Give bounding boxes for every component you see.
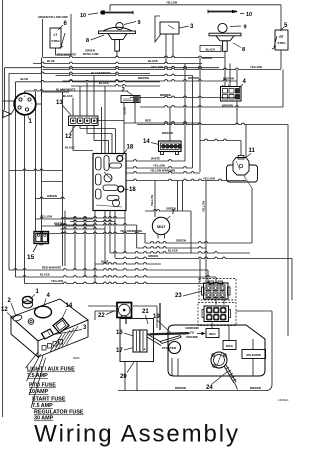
wire bbox=[60, 228, 105, 229]
wire bus YELLOW bbox=[43, 68, 282, 69]
wire label WHITE bbox=[126, 160, 185, 161]
svg-text:SEAT: SEAT bbox=[157, 225, 166, 229]
svg-text:ENGINE: ENGINE bbox=[186, 335, 198, 339]
wire bottom bus YELLOW bbox=[25, 282, 225, 283]
wire bbox=[184, 64, 186, 162]
wire label BLUE left bbox=[16, 80, 161, 81]
wire bbox=[165, 34, 167, 63]
module pin 18a bbox=[117, 156, 123, 162]
svg-text:18: 18 bbox=[129, 187, 136, 193]
light bar 10 left bbox=[100, 12, 133, 14]
wire bbox=[88, 305, 116, 307]
svg-text:10: 10 bbox=[80, 13, 86, 19]
svg-text:YELLOW: YELLOW bbox=[150, 194, 154, 206]
svg-text:TO: TO bbox=[190, 331, 195, 335]
svg-text:W/YELLOW: W/YELLOW bbox=[83, 52, 99, 56]
switch S5 (RT STRG) bbox=[275, 30, 288, 50]
wire bbox=[5, 66, 220, 67]
svg-text:WHITE: WHITE bbox=[151, 157, 160, 161]
fuse holders bbox=[42, 346, 46, 351]
border frame left edge bbox=[2, 0, 4, 417]
wire bbox=[280, 50, 282, 69]
wire bbox=[215, 299, 217, 305]
svg-text:BROWN: BROWN bbox=[160, 93, 171, 97]
wire yellow top run bbox=[110, 4, 281, 6]
svg-text:BROWN: BROWN bbox=[175, 386, 186, 390]
connector 13 cells bbox=[71, 118, 77, 124]
wire label YELLOW left bbox=[36, 218, 94, 219]
svg-text:14: 14 bbox=[143, 139, 150, 145]
svg-text:21: 21 bbox=[142, 309, 149, 315]
wire bbox=[24, 91, 26, 94]
svg-text:BLACK: BLACK bbox=[65, 146, 75, 150]
seat switch 7 bbox=[152, 217, 169, 234]
svg-text:YELLOW: YELLOW bbox=[153, 163, 165, 167]
console knob 4 bbox=[35, 306, 52, 318]
svg-text:20: 20 bbox=[120, 374, 127, 380]
wire bbox=[84, 218, 86, 277]
wire label YELLOW W/BROWN bbox=[126, 172, 200, 173]
wire label RED bbox=[124, 122, 200, 123]
wire bbox=[15, 82, 17, 277]
svg-text:16: 16 bbox=[116, 330, 123, 336]
svg-text:YELLOW: YELLOW bbox=[166, 1, 178, 5]
svg-text:RT: RT bbox=[279, 35, 283, 39]
wire bbox=[42, 19, 44, 57]
wire bbox=[55, 224, 137, 225]
wire bbox=[171, 358, 173, 376]
starter cable wedge bbox=[160, 336, 181, 344]
svg-text:GROUND: GROUND bbox=[185, 326, 199, 330]
svg-text:12: 12 bbox=[1, 307, 8, 313]
connector 23 upper dashed box bbox=[199, 279, 236, 301]
wire bbox=[282, 70, 284, 108]
wire bbox=[291, 259, 293, 301]
wire bbox=[124, 362, 126, 391]
svg-text:BLACK: BLACK bbox=[148, 59, 158, 63]
wire bbox=[244, 176, 252, 188]
wire bbox=[236, 70, 238, 87]
svg-text:SOLENOID: SOLENOID bbox=[246, 353, 261, 357]
wire bbox=[9, 169, 63, 170]
wire bbox=[42, 181, 63, 183]
switch 3 box bbox=[160, 22, 179, 34]
magneto MAG box bbox=[223, 341, 236, 350]
wire bbox=[192, 76, 194, 169]
wire bbox=[207, 270, 209, 282]
svg-text:10 AMP: 10 AMP bbox=[29, 389, 49, 395]
wire bus BROWN2 bbox=[130, 96, 237, 97]
fuse leader lines bbox=[26, 352, 39, 368]
switch S6 (LT STRG) bbox=[50, 28, 61, 48]
module housing bbox=[93, 154, 126, 211]
svg-text:GREEN: GREEN bbox=[47, 194, 57, 198]
wire bbox=[134, 103, 136, 124]
svg-text:18: 18 bbox=[127, 145, 134, 151]
bulb 9 left bbox=[116, 22, 123, 29]
wire label GREEN left bbox=[36, 197, 66, 198]
connector 23 lower dashed box bbox=[198, 303, 236, 326]
wire bbox=[74, 218, 76, 270]
connector 4 bbox=[221, 87, 242, 102]
wire bbox=[224, 58, 226, 87]
svg-text:14: 14 bbox=[66, 303, 73, 309]
wire bbox=[94, 211, 96, 284]
wire right long bbox=[287, 125, 289, 337]
svg-text:09116: 09116 bbox=[73, 357, 80, 360]
wire bbox=[70, 14, 72, 55]
svg-text:YELLOW: YELLOW bbox=[151, 65, 163, 69]
wire label BLUE mid bbox=[95, 263, 161, 264]
svg-text:BLUE: BLUE bbox=[47, 59, 55, 63]
svg-text:BROWN: BROWN bbox=[222, 104, 233, 108]
wire bbox=[72, 126, 74, 151]
connector 23 upper bbox=[204, 283, 229, 299]
wire bbox=[116, 51, 118, 57]
wire bbox=[123, 103, 125, 154]
svg-text:BROWN: BROWN bbox=[138, 76, 149, 80]
wire bbox=[64, 211, 66, 267]
module pin 18b bbox=[118, 186, 124, 192]
wire bbox=[172, 34, 174, 57]
wire bbox=[62, 91, 64, 266]
svg-text:17: 17 bbox=[116, 348, 123, 354]
switch 15 bbox=[34, 232, 49, 244]
svg-text:YELLOW: YELLOW bbox=[203, 177, 215, 181]
bulb 9 right bbox=[218, 23, 227, 32]
wire bus BROWN bbox=[63, 80, 238, 81]
battery 16/17 bbox=[133, 330, 147, 352]
svg-text:12001A: 12001A bbox=[278, 398, 288, 402]
console small button bbox=[28, 319, 34, 325]
wire label YELLOW/BROWN bbox=[36, 232, 146, 233]
svg-text:YELLOW: YELLOW bbox=[51, 279, 63, 283]
svg-text:12: 12 bbox=[65, 134, 72, 140]
wire bus BLACK2 bbox=[71, 85, 160, 86]
wire bbox=[211, 323, 213, 329]
wire bus low bbox=[140, 106, 283, 107]
svg-text:BLACK/WHITE: BLACK/WHITE bbox=[91, 71, 111, 75]
wire bbox=[137, 123, 288, 124]
svg-text:REG: REG bbox=[209, 332, 216, 336]
svg-text:BLUE: BLUE bbox=[21, 77, 29, 81]
wire cable from above bbox=[159, 303, 161, 330]
console rocker 3 bbox=[42, 329, 54, 339]
relay 11 body bbox=[233, 158, 249, 176]
lamp 8 left lens bbox=[103, 27, 132, 31]
wire bbox=[199, 259, 201, 283]
svg-text:GREEN/YELLOW GRN: GREEN/YELLOW GRN bbox=[38, 15, 68, 19]
wire bbox=[65, 217, 125, 218]
wire bus BLACK/WHITE bbox=[56, 74, 193, 75]
wire bbox=[205, 181, 207, 283]
svg-text:PTO FUSE: PTO FUSE bbox=[29, 383, 56, 389]
wire bottom bus RED W/WHITE bbox=[9, 269, 208, 270]
solenoid box bbox=[242, 350, 266, 359]
svg-text:YELLOW W/BROWN: YELLOW W/BROWN bbox=[150, 168, 175, 172]
svg-text:BLACK: BLACK bbox=[168, 249, 178, 253]
wire bbox=[3, 100, 15, 102]
wire bbox=[72, 98, 74, 116]
wire bbox=[94, 140, 109, 142]
wire bbox=[8, 74, 10, 271]
svg-text:YELLOW: YELLOW bbox=[202, 200, 206, 212]
wire label GREEN mid2 bbox=[115, 257, 292, 258]
svg-text:22: 22 bbox=[98, 313, 105, 319]
svg-text:RED W/WHITE: RED W/WHITE bbox=[57, 53, 76, 57]
svg-text:GREEN: GREEN bbox=[176, 238, 186, 242]
connector 13 housing bbox=[69, 116, 99, 126]
wire bbox=[80, 128, 116, 130]
svg-text:GREEN: GREEN bbox=[202, 56, 212, 60]
lamp 8 right lens bbox=[209, 33, 241, 36]
spark plug wire bbox=[224, 366, 234, 383]
svg-text:YELLOW: YELLOW bbox=[250, 65, 262, 69]
connector 23 lower bbox=[204, 306, 229, 322]
wire bbox=[9, 72, 150, 73]
svg-text:GREEN: GREEN bbox=[148, 254, 158, 258]
wire bbox=[41, 58, 43, 233]
svg-text:START FUSE: START FUSE bbox=[32, 397, 66, 403]
wire bbox=[154, 181, 156, 218]
svg-text:BLACK: BLACK bbox=[63, 94, 73, 98]
svg-text:9: 9 bbox=[244, 25, 247, 31]
wire bbox=[169, 107, 171, 141]
wire bbox=[137, 247, 206, 248]
wire bottom bus BLACK bbox=[16, 276, 217, 277]
svg-text:BROWN: BROWN bbox=[162, 131, 173, 135]
wire label WHITE left bbox=[42, 225, 96, 226]
wire bbox=[70, 220, 115, 221]
label 10 right bbox=[240, 13, 244, 15]
battery box 20 bbox=[120, 319, 154, 362]
console front face bbox=[38, 320, 88, 357]
svg-text:BROWN: BROWN bbox=[188, 76, 199, 80]
console key switch 1 bbox=[23, 296, 33, 303]
svg-text:Wiring Assembly: Wiring Assembly bbox=[34, 421, 240, 448]
svg-text:STARTER: STARTER bbox=[162, 346, 177, 350]
battery cable bbox=[147, 334, 162, 343]
wire bbox=[101, 107, 103, 154]
svg-text:STRG: STRG bbox=[277, 41, 286, 45]
svg-text:BLACK: BLACK bbox=[206, 47, 216, 51]
wire bbox=[133, 305, 157, 307]
wire bbox=[109, 211, 111, 254]
wire bbox=[114, 211, 116, 259]
svg-text:LT: LT bbox=[54, 33, 58, 37]
relay 11 socket bbox=[227, 165, 258, 182]
console top face bbox=[11, 299, 88, 341]
rectifier 22 bbox=[117, 303, 132, 318]
svg-text:BROWN: BROWN bbox=[250, 386, 261, 390]
wire bbox=[136, 225, 138, 248]
svg-text:7.5 AMP: 7.5 AMP bbox=[27, 373, 48, 379]
wire bus BLUE bbox=[33, 62, 202, 63]
svg-text:YELLOW: YELLOW bbox=[40, 214, 52, 218]
wire bbox=[35, 91, 37, 232]
module inner parts bbox=[96, 157, 102, 170]
svg-text:LIGHT / AUX FUSE: LIGHT / AUX FUSE bbox=[27, 367, 75, 373]
engine outline bbox=[168, 325, 265, 376]
starter bbox=[169, 342, 181, 354]
ground cable wedge bbox=[150, 332, 191, 335]
svg-text:YELLOW/BROWN: YELLOW/BROWN bbox=[120, 229, 142, 233]
svg-text:BLUE: BLUE bbox=[101, 259, 109, 263]
svg-text:10: 10 bbox=[246, 12, 252, 18]
wire bbox=[224, 52, 226, 58]
wire bbox=[104, 211, 106, 265]
wire bbox=[190, 211, 192, 253]
svg-text:8: 8 bbox=[86, 38, 89, 44]
ignition switch 1 bbox=[14, 93, 36, 115]
wire bbox=[240, 141, 242, 156]
svg-text:RED: RED bbox=[145, 119, 151, 123]
light bar 10 right bbox=[208, 11, 237, 13]
svg-text:BLACK/WHITE: BLACK/WHITE bbox=[56, 88, 76, 92]
wire label BLACK mid bbox=[110, 252, 250, 253]
console front hatch bbox=[50, 334, 62, 352]
wire bbox=[200, 139, 241, 140]
svg-text:MAG: MAG bbox=[226, 344, 234, 348]
svg-text:RED W/WHITE: RED W/WHITE bbox=[42, 265, 61, 269]
svg-text:11: 11 bbox=[249, 148, 256, 154]
connector 14 bbox=[159, 141, 182, 152]
wire label BLACK boxed bbox=[200, 46, 221, 52]
console indicator 2 bbox=[12, 314, 22, 322]
svg-text:BLACK: BLACK bbox=[40, 272, 50, 276]
wire bbox=[144, 233, 146, 243]
regulator REG bbox=[206, 329, 219, 338]
wire bbox=[177, 181, 179, 212]
wire label GREEN mid bbox=[145, 242, 252, 243]
console connector 14 bbox=[53, 318, 69, 333]
svg-text:7.5 AMP: 7.5 AMP bbox=[32, 403, 53, 409]
wire bbox=[124, 211, 126, 254]
svg-text:15: 15 bbox=[27, 254, 35, 261]
brake switch 2 bbox=[121, 96, 140, 103]
wire label YELLOW row bbox=[126, 179, 246, 180]
wire bbox=[199, 58, 201, 173]
svg-text:9: 9 bbox=[138, 20, 141, 26]
svg-text:23: 23 bbox=[175, 293, 182, 299]
console left face bbox=[11, 317, 38, 357]
wire label YELLOW2 bbox=[126, 167, 193, 168]
wire bus short bbox=[25, 90, 129, 91]
svg-text:8: 8 bbox=[242, 47, 245, 53]
wire bbox=[87, 133, 112, 135]
svg-text:STRG: STRG bbox=[51, 39, 60, 43]
wire bus RED W/WHITE bbox=[43, 56, 226, 57]
wire label GREEN seat bbox=[145, 210, 191, 211]
wire bbox=[42, 91, 70, 93]
magneto 24 bbox=[211, 352, 227, 368]
wire brown outer bbox=[118, 390, 266, 392]
